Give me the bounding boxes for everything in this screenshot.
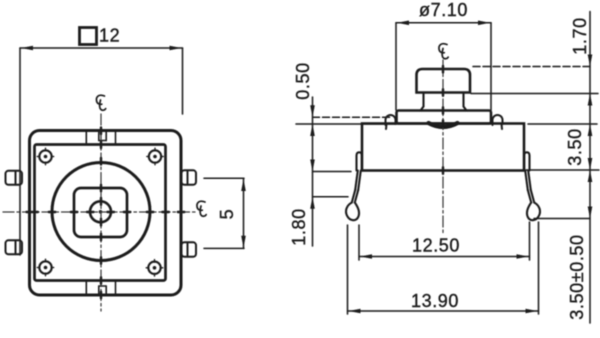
dimension 5 : ext + dim lines: [204, 178, 244, 248]
centerline symbol top of left view: [96, 95, 105, 110]
svg-text:12: 12: [99, 26, 120, 46]
ext body top: [528, 123, 597, 125]
left cover hook: [386, 115, 396, 129]
left clip foot: [346, 203, 359, 221]
dim 12 arrows: [21, 46, 33, 51]
dimension 12.50: [359, 222, 530, 260]
svg-text:5: 5: [217, 209, 237, 220]
left clip stub: [357, 152, 362, 170]
ext clip knee: [313, 196, 349, 198]
ext plate top dashed: [313, 116, 393, 118]
left terminal tab upper: [6, 171, 23, 185]
vertical centerline left view: [100, 114, 102, 311]
top notch verticals: [86, 131, 115, 145]
switch body: [362, 124, 524, 171]
svg-text:12.50: 12.50: [412, 236, 460, 256]
left dimension column (0.50 / 1.80): [296, 97, 396, 246]
dimension 13.90: [348, 222, 539, 314]
svg-text:0.50: 0.50: [293, 62, 313, 99]
right cover hook: [493, 115, 503, 129]
left clip arm: [352, 171, 361, 203]
arrows on right column: [588, 55, 593, 219]
ext body bottom right: [526, 169, 599, 171]
svg-text:3.50: 3.50: [565, 128, 585, 165]
top view inner frame: [35, 145, 166, 281]
horizontal centerline left view: [3, 211, 196, 213]
ext cap bottom: [471, 93, 598, 95]
inner rounded square (actuator): [74, 188, 127, 237]
flange plate: [397, 111, 492, 124]
svg-text:ø7.10: ø7.10: [419, 0, 468, 20]
centerline crossing ticks left view: [27, 128, 185, 299]
bottom notch verticals: [86, 281, 115, 295]
dimension dia 7.10: [396, 23, 491, 110]
right clip stub: [524, 152, 529, 170]
svg-text:3.50±0.50: 3.50±0.50: [567, 234, 587, 319]
dimension square-12 : dim line: [20, 48, 183, 255]
center circle (stem): [90, 201, 111, 222]
arrows on left column: [310, 105, 315, 209]
svg-text:1.80: 1.80: [289, 208, 309, 245]
ext body bottom left: [313, 171, 352, 173]
stem: [421, 93, 467, 111]
mounting hole top-left: [37, 148, 54, 165]
centerline symbol right of left view: [197, 201, 206, 216]
center dot: [99, 210, 103, 214]
big circle (button skirt): [52, 163, 150, 261]
vertical centerline right view: [442, 60, 444, 233]
centerline crossing ticks right view: [442, 66, 444, 174]
ext body top left: [296, 123, 396, 125]
mounting hole bottom-right: [146, 260, 163, 277]
top view outer body outline: [30, 131, 182, 296]
ext cap top (dashed): [473, 66, 590, 68]
right clip arm: [525, 171, 534, 203]
centerline symbol top of right view: [439, 44, 448, 59]
left terminal tab lower: [6, 240, 23, 254]
dim 5 arrows: [241, 179, 246, 191]
dim 12 square symbol: [80, 28, 97, 45]
svg-text:1.70: 1.70: [570, 17, 590, 54]
weld arc under plate center: [429, 123, 458, 127]
ext clip foot bottom right: [534, 218, 590, 220]
right clip foot: [527, 203, 540, 221]
right terminal tab upper: [182, 170, 197, 185]
mounting hole bottom-left: [37, 259, 54, 276]
right terminal tab lower: [182, 242, 197, 256]
svg-text:13.90: 13.90: [411, 291, 459, 311]
right dimension column: [471, 12, 599, 324]
actuator cap: [417, 69, 471, 93]
mounting hole top-right: [147, 148, 164, 165]
